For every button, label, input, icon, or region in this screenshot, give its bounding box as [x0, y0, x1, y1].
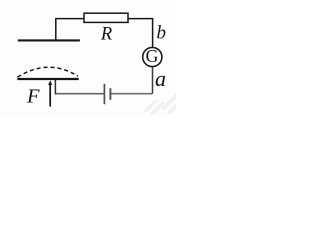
- svg-text:G: G: [146, 46, 159, 66]
- battery positive plate (long, left): [103, 84, 105, 104]
- galvanometer G circle: [143, 47, 162, 66]
- svg-text:a: a: [155, 66, 166, 91]
- battery negative plate (short, right): [109, 88, 111, 100]
- bottom wire: node a corner to battery: [110, 93, 152, 95]
- dashed arc: deformed plate position: [18, 67, 79, 77]
- wire from galvanometer down to node a corner: [151, 67, 153, 94]
- svg-text:b: b: [157, 23, 167, 44]
- svg-text:F: F: [26, 86, 40, 108]
- force arrow F shaft: [49, 85, 51, 107]
- capacitor fixed top plate: [18, 39, 80, 41]
- wire from top plate up to resistor: [56, 19, 84, 41]
- wire from resistor to node b corner: [128, 19, 153, 48]
- capacitor moving bottom plate (rod): [17, 78, 78, 80]
- lead from moving plate down to wire: [54, 80, 56, 95]
- force arrow F head: [48, 80, 52, 85]
- svg-text:R: R: [100, 25, 112, 45]
- wire from battery to moving plate: [56, 93, 104, 95]
- resistor R box: [84, 13, 128, 22]
